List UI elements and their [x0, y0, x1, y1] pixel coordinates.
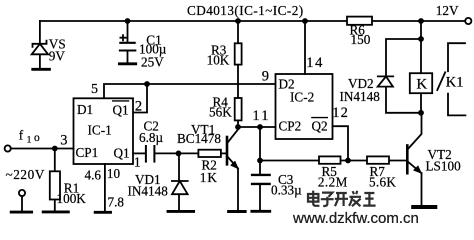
svg-text:www.dzkfw.com.cn: www.dzkfw.com.cn [292, 210, 419, 223]
ground (pin10) [95, 211, 110, 214]
svg-text:150: 150 [351, 32, 371, 47]
diode VD2 [378, 21, 421, 113]
svg-text:25V: 25V [141, 54, 164, 69]
char 开 [335, 193, 348, 206]
ground (C1) [119, 62, 135, 65]
svg-text:IC-1: IC-1 [88, 123, 112, 138]
svg-text:10K: 10K [207, 52, 230, 67]
resistor R6 [347, 17, 372, 25]
char 电 [308, 191, 319, 206]
svg-text:CD4013(IC-1~IC-2): CD4013(IC-1~IC-2) [187, 3, 304, 18]
ground (~220V) [11, 211, 31, 214]
ground (VS) [33, 68, 50, 71]
svg-text:7.8: 7.8 [108, 195, 125, 210]
resistor R3 [237, 21, 239, 98]
wire pin14 [304, 21, 306, 74]
wire top power rail left of R6 [40, 20, 347, 22]
transistor VT2 [406, 146, 409, 174]
node junction dots [52, 18, 424, 163]
svg-text:5: 5 [91, 82, 98, 97]
svg-text:4.6: 4.6 [85, 168, 102, 183]
svg-text:9V: 9V [49, 49, 66, 64]
wire pin10 [104, 164, 106, 211]
svg-text:6.8µ: 6.8µ [139, 130, 163, 145]
svg-text:2.2M: 2.2M [318, 174, 348, 189]
flip-flop IC-2 box [276, 74, 333, 139]
svg-text:100K: 100K [57, 191, 87, 206]
ground (VT2) [413, 205, 435, 209]
wire bottom rail [260, 160, 406, 162]
svg-text:CP2: CP2 [279, 119, 302, 134]
resistor R7 [367, 156, 389, 163]
svg-text:56K: 56K [209, 104, 232, 119]
svg-text:2: 2 [135, 98, 142, 114]
resistor R4 [235, 98, 242, 120]
wire pin3 [11, 148, 74, 150]
svg-text:K: K [416, 77, 427, 93]
svg-text:D1: D1 [77, 102, 93, 117]
op-amp U1 flip-flop IC-1 box [74, 98, 134, 164]
transistor VT1 [226, 137, 229, 164]
svg-text:3: 3 [60, 132, 67, 148]
char 子 [321, 193, 334, 206]
relay K [420, 39, 422, 113]
ground (R1) [43, 210, 68, 213]
char 王 [363, 193, 375, 206]
svg-text:LS100: LS100 [426, 159, 462, 174]
wire pin12 [333, 126, 349, 160]
svg-text:BC1478: BC1478 [177, 131, 221, 146]
resistor R2 [198, 150, 221, 157]
svg-text:12: 12 [332, 105, 349, 121]
wire pin5 to pin9 [104, 84, 276, 98]
svg-text:f1o: f1o [19, 127, 40, 145]
resistor R5 [319, 156, 341, 163]
capacitor C2 [133, 152, 145, 154]
resistor R1 [54, 149, 56, 211]
svg-text:12V: 12V [436, 3, 459, 18]
wire top power rail right of R6 [372, 20, 465, 22]
wire pin11 [238, 126, 276, 128]
svg-text:1: 1 [134, 154, 141, 169]
svg-text:Q1: Q1 [113, 103, 129, 118]
node input f1o terminal [5, 145, 11, 151]
node ~220V terminal [19, 190, 25, 196]
diode VD1 [172, 153, 188, 210]
ground (VT1) [229, 210, 246, 213]
wire pin11 down [259, 127, 261, 161]
svg-text:11: 11 [252, 108, 270, 124]
svg-text:1K: 1K [200, 170, 218, 185]
svg-text:IN4148: IN4148 [340, 89, 381, 104]
relay contact K1 [437, 43, 465, 115]
svg-text:14: 14 [306, 55, 324, 71]
svg-text:10: 10 [107, 166, 121, 181]
ground (VD1) [168, 210, 194, 213]
svg-text:Q1: Q1 [114, 146, 130, 161]
char 发 [349, 191, 361, 206]
watermark 电子开发王 (drawn strokes) [308, 191, 376, 207]
capacitor C3 [259, 161, 261, 210]
svg-text:K1: K1 [446, 74, 464, 90]
ground (C3) [252, 210, 270, 213]
svg-text:0.33µ: 0.33µ [271, 183, 302, 198]
wire pin2 [133, 84, 147, 113]
capacitor C1 [120, 21, 127, 62]
svg-text:5.6K: 5.6K [369, 174, 396, 189]
svg-text:IN4148: IN4148 [128, 184, 169, 199]
svg-text:Q2: Q2 [312, 119, 328, 134]
svg-text:CP1: CP1 [76, 145, 99, 160]
zener diode VS [33, 21, 47, 68]
svg-text:IC-2: IC-2 [290, 90, 314, 105]
svg-text:~220V: ~220V [6, 167, 45, 182]
svg-text:9: 9 [262, 69, 269, 85]
12V terminal [465, 18, 471, 24]
